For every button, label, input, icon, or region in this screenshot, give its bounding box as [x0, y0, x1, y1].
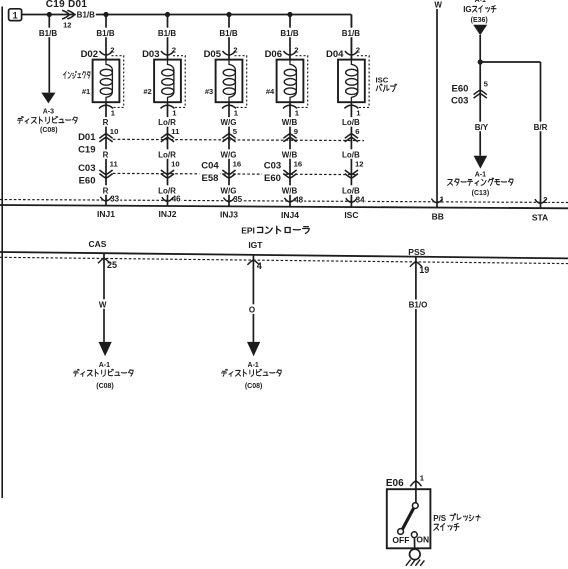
svg-text:ON: ON: [416, 535, 429, 545]
wire: feed drop to D04: [350, 15, 352, 60]
wire colour label B/Y: [473, 122, 489, 132]
connector crossing row2 pin 11: [99, 170, 112, 175]
wire colour label W/G (upper): [220, 117, 238, 127]
wire colour label B1/B (D02): [96, 28, 116, 38]
ECU bus 1 dashed connector line: [0, 200, 568, 203]
pin 1 label (BB): [439, 194, 445, 204]
ECU pin 34 connector fork: [346, 198, 357, 202]
switch common contact: [412, 503, 418, 509]
svg-text:PSS: PSS: [408, 247, 425, 257]
svg-text:Lo/B: Lo/B: [342, 186, 360, 195]
switch lever (OFF position): [402, 508, 413, 529]
junction dot at distributor branch: [47, 12, 52, 17]
svg-text:Lo/B: Lo/B: [342, 150, 360, 159]
ground hatching: [406, 560, 411, 566]
wire colour label Lo/B (lower): [340, 185, 362, 195]
dashed connector line row1: [113, 139, 364, 140]
svg-text:1: 1: [111, 108, 116, 117]
pin 34 label: [355, 195, 366, 205]
wire: W feed to BB: [436, 0, 438, 208]
svg-text:C03: C03: [264, 161, 281, 172]
wire: D04 to ECU bus: [350, 102, 352, 207]
wire: branch to STA (vertical): [540, 62, 542, 208]
wire: D03 to ECU bus: [167, 102, 169, 206]
svg-text:A-1: A-1: [475, 0, 486, 4]
D02 connector arc pin 2: [100, 51, 113, 55]
pin 2 label (STA): [542, 195, 548, 205]
svg-text:6: 6: [355, 127, 359, 136]
svg-text:2: 2: [356, 46, 360, 55]
svg-text:W: W: [434, 1, 442, 10]
svg-text:12: 12: [355, 160, 364, 169]
pin 35 label: [232, 194, 243, 204]
D03 connector arc pin 2: [161, 51, 174, 55]
svg-text:(C13): (C13): [472, 190, 490, 197]
svg-text:1: 1: [172, 108, 177, 117]
wire: D05 to ECU bus: [228, 102, 230, 206]
D06 connector arc pin 2: [284, 51, 297, 55]
svg-text:INJ1: INJ1: [97, 209, 115, 219]
svg-text:A-1: A-1: [475, 171, 486, 178]
D04 coil winding: [351, 60, 357, 103]
connector crossing row2 pin 16: [222, 170, 235, 175]
svg-text:(E36): (E36): [471, 17, 488, 24]
P/S pressure switch E06 box: [387, 489, 431, 548]
svg-text:1: 1: [295, 108, 300, 117]
svg-text:A-1: A-1: [248, 362, 259, 369]
off-page arrow to distributor (CAS): [99, 342, 112, 356]
svg-text:INJ4: INJ4: [281, 210, 299, 220]
D05 coil body box: [216, 60, 243, 103]
svg-text:C04: C04: [201, 161, 219, 172]
connector label C04 (row2, col3): [200, 159, 221, 170]
svg-text:B1/B: B1/B: [39, 29, 57, 38]
svg-text:16: 16: [233, 160, 242, 169]
pin 48 label: [293, 194, 304, 204]
svg-text:BB: BB: [432, 212, 444, 222]
svg-text:1: 1: [356, 108, 361, 117]
wire colour label W/G (middle): [220, 149, 238, 159]
wire colour label W/B (middle): [281, 149, 299, 159]
D02 coil body box: [93, 60, 120, 103]
svg-text:B1/B: B1/B: [96, 29, 114, 38]
D02 dashed connector shell: [112, 56, 124, 108]
page border (left edge): [1, 7, 3, 499]
D04 connector arc pin 1: [344, 105, 358, 108]
D05 connector arc pin 1: [222, 105, 236, 108]
svg-text:IG: IG: [463, 5, 471, 14]
svg-text:W/B: W/B: [282, 150, 298, 159]
wire colour label B1/O: [407, 300, 429, 310]
svg-text:B1/B: B1/B: [219, 29, 237, 38]
connector crossing row1 pin 9: [283, 134, 296, 139]
pin 33 label: [109, 193, 120, 203]
wire: CAS to distributor: [103, 253, 105, 342]
connector crossing row2 pin 12: [345, 170, 358, 175]
svg-text:INJ3: INJ3: [220, 210, 238, 220]
ECU pin 1 fork (BB): [431, 199, 442, 203]
connector crossing row1 pin 11: [161, 134, 174, 139]
svg-text:E58: E58: [202, 173, 219, 184]
svg-text:A-3: A-3: [43, 109, 54, 116]
svg-text:1: 1: [234, 108, 239, 117]
svg-text:B/Y: B/Y: [475, 123, 489, 132]
ECU pin 4 fork (IGT): [247, 260, 259, 265]
D02 connector arc pin 1: [99, 105, 113, 108]
wire: ON contact to ground: [413, 538, 415, 550]
svg-text:W/B: W/B: [282, 186, 298, 195]
wire: feed drop to D02: [105, 15, 107, 60]
svg-text:#3: #3: [205, 87, 213, 96]
svg-text:P/S: P/S: [433, 514, 447, 523]
label distributor (katakana, IGT): [222, 369, 282, 376]
wire colour label Lo/R (lower): [156, 185, 178, 195]
svg-text:1: 1: [420, 473, 425, 482]
label starting motor (katakana): [448, 178, 513, 186]
wire colour label R (lower): [101, 185, 110, 195]
ECU pin 35 connector fork: [223, 198, 234, 202]
wire colour label W/B (lower): [281, 185, 299, 195]
svg-text:5: 5: [233, 127, 238, 136]
wire: feed drop to D03: [167, 15, 169, 60]
svg-text:D04: D04: [326, 49, 344, 60]
wire colour label Lo/R (upper): [156, 117, 178, 127]
svg-text:B1/B: B1/B: [77, 11, 95, 20]
node box 1 (off-page reference): [9, 9, 22, 21]
ECU pin 33 connector fork: [100, 197, 111, 201]
connector crossing row2 pin 16: [283, 170, 296, 175]
svg-text:C19: C19: [78, 145, 95, 156]
wire: D02 to ECU bus: [105, 102, 107, 205]
svg-text:W: W: [99, 300, 107, 309]
connector crossing row2 pin 10: [161, 170, 174, 175]
D06 coil body box: [277, 60, 304, 103]
wire colour label B1/B (D05): [219, 28, 239, 38]
svg-text:11: 11: [110, 160, 119, 169]
svg-text:OFF: OFF: [392, 535, 409, 545]
svg-text:B/R: B/R: [534, 123, 548, 132]
svg-text:D02: D02: [81, 49, 98, 60]
wire colour label B1/B (D04): [341, 28, 361, 38]
svg-text:IGT: IGT: [248, 240, 263, 250]
wire colour label R (upper): [101, 117, 110, 127]
svg-text:2: 2: [172, 46, 176, 55]
svg-text:D01: D01: [78, 132, 96, 143]
wire: feed drop to D06: [289, 15, 291, 60]
ECU pin 19 fork (PSS): [410, 262, 422, 267]
svg-text:E60: E60: [264, 173, 281, 184]
svg-text:Lo/R: Lo/R: [158, 150, 176, 159]
svg-text:#1: #1: [82, 87, 90, 96]
svg-text:C03: C03: [451, 95, 468, 106]
D03 connector arc pin 1: [161, 105, 175, 108]
svg-text:2: 2: [233, 46, 237, 55]
svg-text:D06: D06: [265, 49, 282, 60]
wire: branch to STA (horizontal): [480, 61, 540, 63]
wire colour label B1/B: [38, 28, 58, 38]
wire colour label W/B (upper): [281, 117, 299, 127]
D03 dashed connector shell: [173, 56, 185, 108]
connector E60/C03 pin 5 crossing: [474, 90, 487, 95]
svg-text:(C08): (C08): [245, 383, 263, 390]
svg-text:19: 19: [419, 265, 429, 275]
svg-text:CAS: CAS: [89, 239, 107, 249]
svg-text:25: 25: [107, 260, 117, 270]
svg-text:11: 11: [171, 127, 180, 136]
svg-text:16: 16: [294, 160, 303, 169]
wire colour label Lo/R (middle): [156, 149, 178, 159]
body ground circle: [410, 549, 421, 560]
svg-text:EPI: EPI: [241, 225, 255, 235]
svg-text:C03: C03: [78, 163, 95, 174]
D06 dashed connector shell: [296, 56, 308, 108]
svg-text:STA: STA: [532, 212, 548, 222]
switch OFF contact: [398, 529, 404, 535]
D04 coil body box: [338, 60, 365, 103]
D03 coil winding: [168, 60, 174, 103]
ECU pin 25 fork (CAS): [98, 258, 110, 263]
svg-text:C19 D01: C19 D01: [46, 0, 88, 10]
svg-text:9: 9: [294, 127, 298, 136]
wire colour label B/R: [533, 122, 549, 132]
junction dot feed/D03: [165, 12, 170, 17]
svg-text:ISC: ISC: [344, 210, 358, 220]
svg-text:R: R: [103, 150, 109, 159]
connector label E60 (row2, col4): [262, 172, 283, 183]
wire: feed drop to D05: [228, 15, 230, 60]
label distributor (katakana): [17, 116, 77, 123]
ECU pin 48 connector fork: [284, 198, 295, 202]
D05 dashed connector shell: [235, 56, 247, 108]
wire colour label W/G (lower): [220, 185, 238, 195]
wire: PSS to pressure switch: [415, 257, 417, 503]
junction dot feed/D06: [287, 12, 292, 17]
svg-text:1: 1: [13, 11, 18, 21]
svg-text:33: 33: [110, 194, 119, 203]
junction dot feed/D05: [226, 12, 231, 17]
svg-text:INJ2: INJ2: [159, 209, 177, 219]
inline connector C19/D01 pin 12 (double chevron): [62, 10, 69, 19]
label injector (katakana): [63, 71, 90, 78]
wire colour label Lo/B (middle): [340, 149, 362, 159]
D02 coil winding: [106, 60, 112, 103]
label distributor (katakana, CAS): [73, 369, 133, 376]
svg-text:10: 10: [171, 160, 180, 169]
connector crossing row1 pin 6: [345, 134, 358, 139]
svg-text:5: 5: [484, 79, 489, 88]
switch ON contact: [411, 532, 417, 538]
ECU pin 2 fork (STA): [535, 199, 546, 203]
connector label C03 (row2, col4): [262, 159, 283, 170]
D03 coil body box: [154, 60, 181, 103]
svg-text:4: 4: [257, 261, 262, 271]
off-page arrow to distributor (IGT): [247, 342, 260, 356]
off-page arrow to starting motor: [474, 156, 488, 169]
svg-text:10: 10: [110, 127, 119, 136]
svg-text:12: 12: [63, 21, 71, 30]
svg-text:E60: E60: [451, 84, 468, 95]
svg-text:46: 46: [172, 195, 181, 204]
ECU bus 2 dashed connector line: [0, 257, 568, 263]
svg-text:ISC: ISC: [376, 76, 389, 85]
svg-text:2: 2: [110, 46, 114, 55]
dashed connector line row2: [113, 173, 356, 174]
ECU bus 1 solid edge: [0, 205, 568, 208]
connector label E58 (row2, col3): [200, 172, 221, 183]
svg-text:B1/B: B1/B: [158, 29, 176, 38]
ECU pin 46 connector fork: [162, 197, 173, 201]
svg-text:B1/O: B1/O: [409, 301, 428, 310]
D05 connector arc pin 2: [223, 51, 236, 55]
wire: branch to A-3 distributor: [48, 15, 50, 93]
svg-text:E60: E60: [79, 175, 96, 186]
svg-text:D03: D03: [142, 49, 159, 60]
switch E06 connector arc pin 1: [410, 481, 421, 486]
svg-text:B1/B: B1/B: [280, 29, 298, 38]
wire: IG switch feed down: [479, 35, 481, 156]
svg-text:R: R: [103, 118, 109, 127]
wire colour label O (IGT): [247, 304, 257, 314]
wire: D06 to ECU bus: [289, 102, 291, 206]
svg-text:34: 34: [356, 196, 365, 205]
svg-text:E06: E06: [386, 478, 404, 489]
ECU bus 2 solid edge: [0, 252, 568, 258]
wire colour label W: [433, 0, 443, 9]
svg-text:W/G: W/G: [221, 150, 237, 159]
wire colour label R (middle): [101, 149, 110, 159]
junction dot IG/STA branch: [478, 59, 483, 64]
wire colour label W (CAS): [98, 299, 108, 309]
off-page arrow from IG switch: [473, 25, 487, 36]
off-page arrow to A-3 distributor: [41, 93, 55, 104]
svg-text:#2: #2: [143, 87, 151, 96]
pin 46 label: [171, 194, 182, 204]
D06 coil winding: [290, 60, 296, 103]
wire colour label B1/B (D06): [280, 28, 300, 38]
svg-text:R: R: [103, 186, 109, 195]
D04 dashed connector shell: [357, 56, 369, 108]
svg-text:#4: #4: [266, 87, 275, 96]
svg-text:35: 35: [233, 195, 242, 204]
svg-text:D05: D05: [204, 49, 222, 60]
wire: main B1/B feed from node 1: [22, 14, 352, 16]
wire: D04 branch corner down: [350, 15, 352, 60]
junction dot feed/D02: [103, 12, 108, 17]
D06 connector arc pin 1: [283, 105, 297, 108]
wire colour label B1/B (D03): [157, 28, 177, 38]
wire colour label Lo/B (upper): [340, 117, 362, 127]
svg-text:2: 2: [294, 46, 298, 55]
wire: IGT to distributor: [252, 255, 254, 342]
connector crossing row1 pin 10: [99, 134, 112, 139]
connector crossing row1 pin 5: [222, 134, 235, 139]
svg-text:48: 48: [294, 195, 303, 204]
svg-text:B1/B: B1/B: [342, 29, 360, 38]
svg-text:A-1: A-1: [99, 362, 110, 369]
D05 coil winding: [229, 60, 235, 103]
wire colour label B1/B on feed wire: [76, 10, 96, 20]
svg-text:(C08): (C08): [96, 383, 114, 390]
D04 connector arc pin 2: [345, 51, 358, 55]
svg-text:O: O: [249, 305, 255, 314]
svg-text:(C08): (C08): [40, 127, 58, 134]
